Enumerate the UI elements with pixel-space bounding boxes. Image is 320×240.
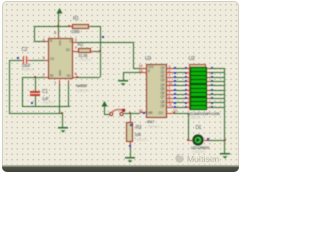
svg-text:Multisim: Multisim [187, 154, 219, 164]
